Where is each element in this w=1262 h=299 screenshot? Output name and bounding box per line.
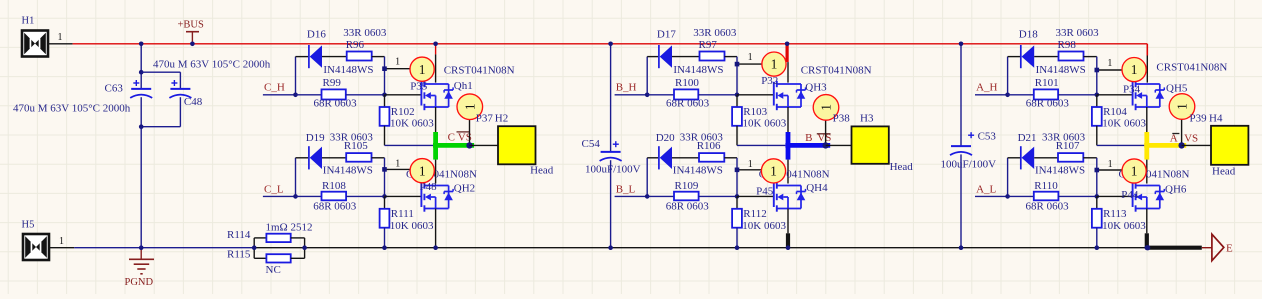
svg-text:68R 0603: 68R 0603 bbox=[313, 200, 357, 212]
wire R to right column (low) bbox=[1083, 157, 1097, 159]
junction VS node bbox=[822, 142, 828, 148]
svg-text:R111: R111 bbox=[391, 208, 414, 220]
svg-text:10K 0603: 10K 0603 bbox=[1102, 220, 1146, 232]
wire gate pin of QH6 bbox=[1097, 195, 1133, 197]
wire C48 top branch bbox=[141, 72, 180, 89]
wire gate pin of Qh1 bbox=[385, 94, 422, 96]
svg-text:C48: C48 bbox=[184, 96, 203, 108]
wire H1 pin 1 bbox=[48, 43, 73, 45]
svg-text:C_L: C_L bbox=[264, 184, 284, 196]
junction rail/source B bbox=[786, 245, 791, 250]
wire A_H stub bbox=[975, 94, 1008, 96]
header H4 (Head) bbox=[1211, 126, 1248, 178]
wire E thick bbox=[1147, 246, 1201, 250]
junction C_H/left column bbox=[293, 93, 298, 98]
svg-text:Head: Head bbox=[890, 161, 914, 173]
svg-text:33R 0603: 33R 0603 bbox=[680, 131, 724, 143]
wire C_L stub bbox=[263, 195, 296, 197]
wire D to R (low) bbox=[672, 157, 700, 159]
svg-text:B: B bbox=[805, 132, 812, 144]
junction rail/C54 bbox=[608, 245, 613, 250]
jumper P35 (gate bead) bbox=[410, 57, 434, 93]
svg-text:VS: VS bbox=[1184, 132, 1198, 144]
svg-text:IN4148WS: IN4148WS bbox=[1035, 164, 1085, 176]
svg-text:R104: R104 bbox=[1103, 106, 1127, 118]
svg-text:H4: H4 bbox=[1209, 113, 1223, 125]
wire B_VS thick vertical bbox=[786, 132, 791, 160]
power symbol +BUS bbox=[178, 20, 205, 44]
resistor R98 33R 0603 bbox=[1056, 27, 1100, 61]
transistor QH4 CRST041N08N (low side) bbox=[759, 169, 830, 212]
wire gate pin of QH3 bbox=[737, 94, 774, 96]
wire B high left vertical bbox=[646, 57, 648, 95]
net label B_L bbox=[616, 184, 636, 196]
svg-text:R108: R108 bbox=[322, 180, 346, 192]
wire A high right column vertical bbox=[1096, 57, 1098, 95]
value label NC bbox=[266, 264, 281, 276]
svg-text:PGND: PGND bbox=[125, 277, 154, 288]
wire C high right column vertical bbox=[384, 57, 386, 95]
svg-text:D18: D18 bbox=[1019, 28, 1038, 40]
wire D row left bbox=[296, 56, 309, 58]
svg-text:R100: R100 bbox=[675, 77, 699, 89]
resistor R104 10K 0603 bbox=[1092, 95, 1147, 146]
resistor R106 33R 0603 bbox=[680, 131, 725, 161]
junction C63/C48 bottom bbox=[139, 124, 144, 129]
junction C63/C48 top bbox=[139, 70, 144, 75]
wire A_L stub bbox=[975, 195, 1008, 197]
svg-text:R112: R112 bbox=[743, 208, 766, 220]
svg-text:H2: H2 bbox=[495, 113, 508, 125]
svg-text:E: E bbox=[1226, 243, 1233, 255]
wire C63 bottom bbox=[140, 97, 142, 127]
svg-text:470u M 63V 105°C 2000h: 470u M 63V 105°C 2000h bbox=[13, 102, 131, 114]
resistor R114 bbox=[227, 229, 305, 248]
svg-text:P39: P39 bbox=[1190, 113, 1208, 125]
svg-text:H5: H5 bbox=[22, 219, 35, 230]
svg-text:QH6: QH6 bbox=[1165, 183, 1187, 195]
wire VS to drain of QH6 bbox=[1146, 160, 1148, 184]
svg-text:68R 0603: 68R 0603 bbox=[1026, 97, 1070, 109]
wire R10K bottom to VS bbox=[737, 144, 785, 146]
junction R/gate node (low) bbox=[735, 194, 740, 199]
wire C_VS thick vertical bbox=[433, 132, 438, 160]
resistor R113 10K 0603 bbox=[1092, 196, 1146, 247]
wire R to right column bbox=[725, 56, 738, 58]
svg-text:IN4148WS: IN4148WS bbox=[323, 164, 373, 176]
svg-text:NC: NC bbox=[266, 264, 281, 276]
header H2 (Head) bbox=[498, 126, 554, 176]
test point P38 bbox=[813, 95, 839, 146]
wire VS to drain of QH2 bbox=[435, 160, 437, 184]
wire source to VS node bbox=[1146, 107, 1148, 132]
wire drain riser C high (red pin) bbox=[435, 44, 437, 83]
power symbol PGND bbox=[125, 248, 155, 289]
svg-text:P34: P34 bbox=[1123, 84, 1141, 96]
svg-text:10K 0603: 10K 0603 bbox=[742, 220, 786, 232]
junction gate node C high bbox=[382, 66, 387, 71]
wire A_VS thick horizontal bbox=[1144, 143, 1186, 148]
port E bbox=[1212, 234, 1233, 261]
connector H1 bbox=[22, 16, 63, 57]
wire D row left (low) bbox=[296, 157, 309, 159]
svg-text:QH3: QH3 bbox=[805, 82, 827, 94]
wire R10K bottom to VS bbox=[1097, 144, 1144, 146]
resistor R99 68R 0603 bbox=[296, 77, 385, 110]
wire source to rail C bbox=[435, 209, 437, 248]
wire C low left vertical bbox=[295, 158, 297, 197]
transistor QH5 CRST041N08N (high side) bbox=[1133, 62, 1228, 111]
junction C_L/left column bbox=[293, 194, 298, 199]
junction rail/source C bbox=[433, 245, 438, 250]
wire D to R bbox=[322, 56, 347, 58]
junction rail/PGND bbox=[139, 245, 144, 250]
jumper P32 (gate bead) bbox=[761, 52, 786, 87]
svg-text:P44: P44 bbox=[1121, 189, 1139, 201]
diode D18 IN4148WS bbox=[1019, 28, 1086, 76]
svg-text:IN4148WS: IN4148WS bbox=[673, 64, 723, 76]
svg-text:D17: D17 bbox=[657, 28, 676, 40]
value label 470u (left) bbox=[13, 102, 131, 114]
junction A_H/left column bbox=[1005, 93, 1010, 98]
wire gate pin of QH5 bbox=[1097, 94, 1133, 96]
resistor R112 10K 0603 bbox=[732, 196, 786, 247]
resistor R110 68R 0603 bbox=[1008, 180, 1097, 212]
wire B_VS thick horizontal bbox=[785, 143, 830, 148]
net label C_VS bbox=[448, 132, 472, 144]
jumper P48 (gate bead, low) bbox=[410, 159, 434, 183]
svg-text:Head: Head bbox=[1212, 166, 1236, 178]
diode D16 IN4148WS bbox=[307, 28, 374, 76]
svg-text:IN4148WS: IN4148WS bbox=[1036, 64, 1086, 76]
svg-text:R97: R97 bbox=[699, 39, 718, 51]
svg-text:1: 1 bbox=[1175, 103, 1190, 110]
diode D20 IN4148WS bbox=[656, 132, 723, 176]
wire +BUS bus (red) bbox=[73, 43, 1148, 45]
wire R to right column bbox=[372, 56, 385, 58]
wire pin 1 of P34 bbox=[1097, 58, 1123, 70]
designator P39 H4 bbox=[1190, 113, 1223, 125]
wire bus to C54 bbox=[610, 44, 612, 152]
resistor R105 33R 0603 bbox=[330, 131, 374, 161]
wire A_VS thick vertical bbox=[1144, 132, 1149, 160]
svg-text:10K 0603: 10K 0603 bbox=[1102, 117, 1146, 129]
svg-text:QH5: QH5 bbox=[1166, 83, 1188, 95]
wire bus to C53 bbox=[960, 44, 962, 146]
svg-text:CRST041N08N: CRST041N08N bbox=[444, 64, 515, 76]
test point P39 bbox=[1169, 94, 1195, 146]
diode D17 IN4148WS bbox=[657, 28, 724, 76]
svg-text:1mΩ 2512: 1mΩ 2512 bbox=[266, 221, 313, 233]
svg-text:C: C bbox=[448, 132, 455, 144]
svg-text:D21: D21 bbox=[1018, 132, 1037, 144]
junction rail/R114 right bbox=[302, 245, 307, 250]
junction VS node bbox=[466, 142, 472, 148]
svg-text:1: 1 bbox=[462, 103, 477, 110]
resistor R107 33R 0603 bbox=[1042, 131, 1086, 161]
wire D to R (low) bbox=[1034, 157, 1058, 159]
wire B_H stub bbox=[615, 94, 648, 96]
svg-text:68R 0603: 68R 0603 bbox=[314, 97, 358, 109]
net label B_H bbox=[616, 82, 637, 94]
svg-text:QH4: QH4 bbox=[806, 182, 828, 194]
value label 1mOhm 2512 bbox=[266, 221, 313, 233]
svg-text:P38: P38 bbox=[833, 113, 851, 125]
wire C high left vertical bbox=[295, 57, 297, 95]
wire drain riser B high (thick red) bbox=[785, 44, 789, 83]
svg-text:R114: R114 bbox=[227, 229, 251, 241]
wire A low left vertical bbox=[1007, 158, 1009, 197]
junction R/gate node (low) bbox=[1095, 194, 1100, 199]
net label C_H bbox=[264, 82, 285, 94]
resistor R100 68R 0603 bbox=[647, 77, 737, 110]
junction B_L/left column bbox=[645, 194, 650, 199]
junction bus/drain C bbox=[433, 42, 438, 47]
svg-text:R99: R99 bbox=[323, 77, 342, 89]
wire C63 branch to rail bbox=[140, 127, 142, 248]
svg-text:33R 0603: 33R 0603 bbox=[693, 27, 737, 39]
svg-text:33R 0603: 33R 0603 bbox=[1056, 27, 1100, 39]
wire D row left bbox=[647, 56, 658, 58]
svg-text:1: 1 bbox=[395, 57, 400, 68]
svg-text:68R 0603: 68R 0603 bbox=[1026, 200, 1070, 212]
jumper P44 (gate bead, low) bbox=[1122, 159, 1146, 183]
svg-text:B_L: B_L bbox=[616, 184, 636, 196]
transistor QH6 CRST041N08N (low side) bbox=[1119, 169, 1190, 212]
svg-text:33R 0603: 33R 0603 bbox=[343, 27, 387, 39]
junction rail/R10K (low) bbox=[1095, 245, 1100, 250]
svg-text:C54: C54 bbox=[582, 138, 601, 150]
junction bus/C54 bbox=[608, 42, 613, 47]
svg-text:10K 0603: 10K 0603 bbox=[743, 117, 787, 129]
wire H5 pin 1 bbox=[49, 247, 74, 249]
resistor R115 bbox=[227, 248, 305, 263]
junction R/gate node bbox=[735, 93, 740, 98]
svg-text:1: 1 bbox=[1107, 58, 1112, 69]
wire VS to header H2 bbox=[470, 144, 499, 146]
wire B low left vertical bbox=[646, 158, 648, 197]
svg-text:1: 1 bbox=[1108, 159, 1113, 170]
svg-text:470u M 63V 105°C 2000h: 470u M 63V 105°C 2000h bbox=[153, 59, 271, 71]
svg-text:1: 1 bbox=[395, 158, 400, 169]
capacitor C53 100uF/100V bbox=[941, 131, 997, 171]
svg-text:1: 1 bbox=[1131, 164, 1138, 179]
wire E pin (red) bbox=[1202, 247, 1212, 249]
svg-text:A: A bbox=[1170, 132, 1178, 144]
svg-text:D20: D20 bbox=[656, 132, 675, 144]
resistor R111 10K 0603 bbox=[380, 196, 434, 247]
junction bus/drain B bbox=[785, 42, 790, 47]
transistor Qh1 CRST041N08N (high side) bbox=[421, 64, 514, 110]
svg-text:H3: H3 bbox=[860, 113, 874, 125]
wire D row left bbox=[1008, 56, 1020, 58]
designator P45 bbox=[756, 186, 774, 198]
junction R/gate node (low) bbox=[382, 194, 387, 199]
connector H5 bbox=[22, 219, 65, 260]
header H3 (Head) bbox=[852, 126, 914, 173]
svg-text:33R 0603: 33R 0603 bbox=[330, 131, 374, 143]
wire ground rail (middle, black) bbox=[254, 247, 1147, 249]
junction rail/C53 bbox=[959, 245, 964, 250]
wire B_L stub bbox=[615, 195, 648, 197]
svg-text:P45: P45 bbox=[756, 186, 774, 198]
wire gate pin of QH2 bbox=[385, 195, 422, 197]
wire pin 1 of P48 bbox=[385, 158, 411, 169]
wire B high right column vertical bbox=[736, 57, 738, 95]
svg-text:R101: R101 bbox=[1035, 77, 1059, 89]
wire ground rail (left, blue) bbox=[74, 247, 254, 249]
net label B_VS bbox=[805, 132, 831, 144]
jumper P34 (gate bead) bbox=[1122, 58, 1146, 96]
junction gate node A high bbox=[1095, 68, 1100, 73]
designator P37 H2 bbox=[476, 113, 508, 125]
junction VS node bbox=[1178, 142, 1184, 148]
junction rail/R10K (low) bbox=[382, 245, 387, 250]
svg-text:QH2: QH2 bbox=[454, 182, 475, 194]
svg-text:1: 1 bbox=[419, 62, 426, 77]
resistor R108 68R 0603 bbox=[296, 180, 385, 212]
designator P44 bbox=[1121, 189, 1139, 201]
wire pin 1 of P35 bbox=[385, 57, 411, 69]
svg-text:1: 1 bbox=[748, 159, 753, 170]
svg-text:D16: D16 bbox=[307, 28, 326, 40]
wire C_H stub bbox=[263, 94, 296, 96]
jumper P45 (gate bead, low) bbox=[761, 159, 785, 183]
wire R to right column (low) bbox=[372, 157, 385, 159]
svg-text:B_H: B_H bbox=[616, 82, 637, 94]
wire D row left (low) bbox=[647, 157, 658, 159]
wire VS to header H4 bbox=[1182, 144, 1211, 146]
svg-text:+BUS: +BUS bbox=[178, 20, 205, 31]
wire source to VS node bbox=[787, 107, 789, 132]
svg-text:C53: C53 bbox=[978, 131, 997, 143]
svg-text:68R 0603: 68R 0603 bbox=[666, 200, 710, 212]
transistor QH2 CRST041N08N (low side) bbox=[406, 169, 477, 212]
junction gate node B high bbox=[735, 62, 740, 67]
net label A_H bbox=[976, 82, 997, 94]
svg-text:33R 0603: 33R 0603 bbox=[1042, 131, 1086, 143]
junction B_H/left column bbox=[645, 93, 650, 98]
wire source to rail B (thick bottom) bbox=[787, 209, 789, 248]
junction bus/C63 bbox=[139, 42, 144, 47]
svg-text:R115: R115 bbox=[227, 248, 251, 260]
svg-text:A_H: A_H bbox=[976, 82, 997, 94]
wire bus to C63 branch bbox=[140, 44, 142, 89]
svg-text:1: 1 bbox=[770, 164, 777, 179]
wire D row left (low) bbox=[1008, 157, 1020, 159]
svg-text:R102: R102 bbox=[391, 106, 415, 118]
diode D21 IN4148WS bbox=[1018, 132, 1086, 176]
svg-text:1: 1 bbox=[58, 32, 63, 43]
svg-text:68R 0603: 68R 0603 bbox=[666, 97, 710, 109]
svg-text:1: 1 bbox=[819, 104, 834, 111]
capacitor C63 bbox=[105, 80, 153, 98]
wire C53 to rail bbox=[960, 154, 962, 247]
svg-text:IN4148WS: IN4148WS bbox=[673, 164, 723, 176]
svg-text:P37: P37 bbox=[476, 113, 494, 125]
wire A high left vertical bbox=[1007, 57, 1009, 95]
wire B low right column vertical bbox=[736, 158, 738, 197]
wire R to right column (low) bbox=[724, 157, 737, 159]
wire C48 bottom bbox=[141, 97, 180, 127]
wire source to VS node bbox=[435, 107, 437, 132]
junction rail/E bbox=[1145, 245, 1150, 250]
svg-text:IN4148WS: IN4148WS bbox=[323, 64, 373, 76]
junction gate node C low bbox=[382, 167, 387, 172]
svg-text:P32: P32 bbox=[761, 75, 778, 87]
junction rail/source A bbox=[1145, 245, 1150, 250]
wire drain riser A high (bus corner) bbox=[1146, 44, 1148, 83]
resistor R96 33R 0603 bbox=[343, 27, 387, 61]
resistor R102 10K 0603 bbox=[380, 95, 435, 146]
junction R/gate node bbox=[1095, 93, 1100, 98]
svg-text:Head: Head bbox=[530, 164, 554, 176]
svg-text:1: 1 bbox=[419, 163, 426, 178]
wire C low right column vertical bbox=[384, 158, 386, 197]
junction gate node A low bbox=[1095, 168, 1100, 173]
capacitor C54 100uF/100V bbox=[582, 138, 641, 175]
net label A_VS bbox=[1170, 132, 1198, 144]
junction R/gate node bbox=[382, 93, 387, 98]
junction bus/C53 bbox=[959, 42, 964, 47]
resistor R97 33R 0603 bbox=[693, 27, 737, 61]
junction on bus at +BUS bbox=[190, 42, 195, 47]
svg-text:R113: R113 bbox=[1103, 208, 1127, 220]
svg-text:Qh1: Qh1 bbox=[454, 80, 473, 92]
resistor R101 68R 0603 bbox=[1008, 77, 1097, 110]
transistor QH3 CRST041N08N (high side) bbox=[774, 64, 872, 110]
svg-text:D19: D19 bbox=[306, 132, 325, 144]
svg-text:1: 1 bbox=[59, 236, 64, 247]
svg-text:A_L: A_L bbox=[976, 184, 996, 196]
designator P38 H3 bbox=[833, 113, 874, 125]
wire C_VS thick horizontal bbox=[433, 143, 474, 148]
test point P37 bbox=[457, 94, 483, 146]
svg-text:100uF/100V: 100uF/100V bbox=[941, 159, 997, 171]
capacitor C48 bbox=[169, 80, 202, 108]
wire C54 to rail bbox=[610, 160, 612, 248]
wire pin 1 of P45 bbox=[737, 159, 762, 170]
svg-text:C63: C63 bbox=[105, 83, 124, 95]
designator P48 bbox=[420, 181, 438, 193]
wire D to R bbox=[1034, 56, 1058, 58]
net label A_L bbox=[976, 184, 996, 196]
svg-text:H1: H1 bbox=[22, 16, 35, 27]
wire gate pin of QH4 bbox=[737, 195, 774, 197]
svg-text:10K 0603: 10K 0603 bbox=[390, 220, 434, 232]
wire R to right column bbox=[1084, 56, 1097, 58]
wire VS to drain of QH4 bbox=[787, 160, 789, 184]
svg-text:R103: R103 bbox=[743, 106, 767, 118]
wire pin 1 of P44 bbox=[1097, 159, 1123, 170]
svg-text:R98: R98 bbox=[1058, 39, 1077, 51]
wire D to R (low) bbox=[322, 157, 347, 159]
diode D19 IN4148WS bbox=[306, 132, 373, 176]
svg-text:100uF/100V: 100uF/100V bbox=[585, 163, 641, 175]
svg-text:C_H: C_H bbox=[264, 82, 285, 94]
wire D to R bbox=[672, 56, 700, 58]
svg-text:CRST041N08N: CRST041N08N bbox=[801, 64, 872, 76]
net label C_L bbox=[264, 184, 284, 196]
resistor R109 68R 0603 bbox=[647, 180, 737, 212]
junction rail/R114 left bbox=[252, 245, 257, 250]
junction rail/R10K (low) bbox=[735, 245, 740, 250]
svg-text:1: 1 bbox=[748, 52, 753, 63]
svg-text:CRST041N08N: CRST041N08N bbox=[1156, 62, 1227, 74]
svg-text:R109: R109 bbox=[675, 180, 699, 192]
resistor R103 10K 0603 bbox=[732, 95, 787, 146]
svg-text:10K 0603: 10K 0603 bbox=[390, 117, 434, 129]
